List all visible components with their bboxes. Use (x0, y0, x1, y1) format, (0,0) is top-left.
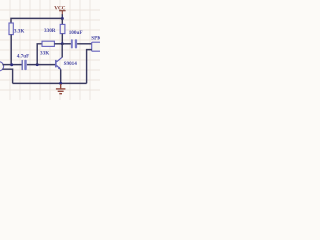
resistor R1 3.3K body (9, 23, 13, 35)
resistor R2 330R body (60, 24, 65, 33)
wire collector vertical (61, 44, 63, 58)
wire mic top terminal to C1 (2, 64, 21, 66)
wire emitter vertical (60, 69, 62, 83)
capacitor C2 100uF (71, 39, 77, 48)
power symbol VCC (59, 11, 66, 15)
wire collector node to C2 (62, 43, 71, 45)
svg-text:100uF: 100uF (69, 30, 83, 36)
wire top VCC rail (11, 18, 62, 23)
junction emitter / ground (59, 82, 62, 85)
microphone MK1 (0, 62, 4, 71)
junction base node (36, 63, 39, 66)
wire R3 right lead to collector node (54, 43, 62, 45)
ground symbol (56, 84, 66, 94)
background (0, 0, 100, 100)
wire R1 bottom lead (10, 35, 12, 65)
junction mic wire / R1 (10, 63, 13, 66)
wire C2 to speaker (77, 43, 92, 45)
svg-text:S9014: S9014 (64, 61, 78, 67)
resistor R3 33K body (42, 41, 54, 46)
junction VCC rail / R2 (61, 17, 64, 20)
wire C1 to base node (27, 64, 55, 66)
wire base node riser to R3 (37, 44, 42, 65)
wire VCC stem to rail (61, 14, 63, 18)
wire speaker bottom pin to ground rail (87, 50, 92, 84)
svg-text:SPK: SPK (91, 36, 100, 42)
svg-text:3.3K: 3.3K (14, 28, 25, 34)
svg-text:33K: 33K (40, 51, 49, 57)
wire R2 bottom lead (61, 34, 63, 44)
capacitor C1 4.7uF (22, 60, 27, 70)
wire R2 top lead (61, 18, 63, 24)
junction collector node (61, 42, 64, 45)
svg-text:330R: 330R (44, 28, 56, 34)
svg-text:4.7uF: 4.7uF (17, 53, 30, 59)
wire bottom ground rail (13, 82, 87, 84)
speaker SPK (92, 42, 101, 51)
wire mic bottom terminal to ground rail (2, 69, 12, 83)
transistor Q1 S9014 (55, 57, 62, 70)
